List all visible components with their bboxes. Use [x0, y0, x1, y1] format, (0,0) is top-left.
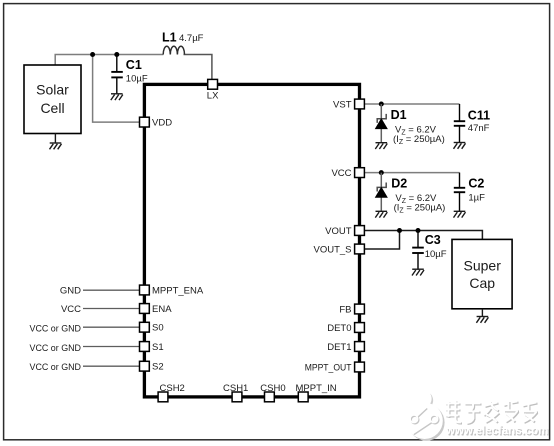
pin LX — [207, 79, 219, 101]
svg-text:D2: D2 — [391, 176, 407, 190]
ground (C1) — [111, 94, 123, 100]
pin DET0 — [327, 323, 364, 335]
svg-text:D1: D1 — [391, 108, 407, 122]
wire VCC or GND to S1 — [83, 346, 140, 348]
wire GND to MPPT_ENA — [83, 289, 140, 291]
svg-text:4.7µF: 4.7µF — [179, 33, 204, 44]
wire solar cell top to rail — [55, 55, 163, 66]
svg-text:S0: S0 — [152, 323, 164, 334]
pin VST — [333, 99, 364, 111]
pin MPPT_ENA — [140, 285, 204, 296]
svg-text:www.elecfans.com: www.elecfans.com — [445, 425, 548, 437]
svg-text:MPPT_ENA: MPPT_ENA — [152, 285, 204, 296]
pin VCC — [331, 168, 364, 180]
pin FB — [339, 304, 364, 316]
svg-text:L1: L1 — [162, 30, 177, 44]
watermark logo — [406, 392, 444, 441]
pin VDD — [140, 117, 173, 128]
wire L1 to LX pin — [184, 55, 212, 81]
super cap box — [452, 239, 512, 308]
wire VOUT to Super Cap — [364, 231, 482, 241]
wire VCC or GND to S0 — [83, 326, 140, 328]
svg-text:GND: GND — [60, 285, 81, 296]
svg-text:C2: C2 — [468, 176, 484, 190]
svg-text:MPPT_IN: MPPT_IN — [296, 383, 337, 394]
capacitor C3 — [412, 231, 424, 270]
svg-text:VCC: VCC — [331, 168, 351, 179]
svg-text:Super: Super — [464, 258, 502, 274]
svg-text:CSH2: CSH2 — [160, 383, 185, 394]
wire VST to C11 — [364, 103, 459, 105]
capacitor C11 — [454, 104, 465, 142]
wire VCC or GND to S2 — [83, 365, 140, 367]
ground (C3) — [412, 269, 424, 275]
solar cell box — [24, 65, 81, 134]
svg-text:VOUT: VOUT — [325, 226, 352, 237]
svg-text:10µF: 10µF — [126, 73, 148, 84]
node A junction dot — [90, 52, 95, 57]
node VCC junction dot — [379, 170, 384, 175]
pin VOUT — [325, 226, 364, 238]
pin MPPT_OUT — [305, 362, 365, 374]
svg-text:Solar: Solar — [36, 82, 69, 98]
svg-text:DET1: DET1 — [327, 342, 351, 353]
svg-text:1µF: 1µF — [468, 192, 485, 203]
svg-text:C1: C1 — [126, 58, 142, 72]
node D junction dot — [416, 228, 421, 233]
inductor L1 — [163, 46, 184, 54]
svg-text:47nF: 47nF — [468, 123, 490, 134]
svg-text:VOUT_S: VOUT_S — [313, 245, 351, 256]
pin VOUT_S — [313, 244, 364, 256]
node C junction dot — [397, 228, 402, 233]
zener diode D2 — [376, 173, 387, 212]
ground (D1) — [375, 143, 387, 149]
svg-text:CSH0: CSH0 — [260, 383, 285, 394]
capacitor C1 — [111, 55, 123, 94]
node B junction dot — [114, 52, 119, 57]
svg-text:S2: S2 — [152, 362, 164, 373]
wire node A to VDD pin — [93, 55, 140, 123]
svg-text:C11: C11 — [468, 108, 490, 122]
svg-text:VDD: VDD — [152, 118, 172, 129]
node VST junction dot — [379, 102, 384, 107]
pin DET1 — [327, 342, 364, 354]
pin S0 — [140, 322, 164, 333]
svg-text:C3: C3 — [425, 233, 441, 247]
svg-text:VCC: VCC — [61, 304, 81, 315]
svg-text:VST: VST — [333, 100, 352, 111]
IC U1 (energy harvester, main body) — [144, 84, 359, 397]
svg-text:MPPT_OUT: MPPT_OUT — [305, 363, 352, 374]
pin CSH1 — [223, 383, 248, 402]
svg-text:VCC or GND: VCC or GND — [30, 323, 82, 334]
ground (super cap) — [476, 309, 488, 323]
wire VOUT_S to node C — [364, 231, 399, 250]
wire VCC to ENA — [83, 308, 140, 310]
ground (D2) — [375, 211, 387, 217]
svg-text:FB: FB — [339, 305, 351, 316]
svg-text:DET0: DET0 — [327, 323, 351, 334]
svg-text:Cap: Cap — [469, 275, 495, 291]
svg-text:CSH1: CSH1 — [223, 383, 248, 394]
svg-text:VCC or GND: VCC or GND — [30, 362, 82, 373]
pin CSH0 — [260, 383, 285, 402]
svg-text:LX: LX — [207, 91, 219, 102]
pin S1 — [140, 342, 164, 353]
watermark text dian-zi-fa-shao-you — [447, 402, 539, 425]
pin S2 — [140, 361, 164, 372]
svg-text:Cell: Cell — [40, 100, 64, 116]
svg-text:ENA: ENA — [152, 304, 172, 315]
svg-text:10µF: 10µF — [425, 249, 447, 260]
ground (C11) — [454, 143, 466, 149]
ground (solar cell) — [50, 134, 62, 150]
wire VCC to C2 — [364, 172, 459, 174]
capacitor C2 — [454, 173, 465, 212]
zener diode D1 — [376, 104, 387, 143]
pin MPPT_IN — [296, 383, 337, 402]
pin ENA — [140, 304, 173, 315]
ground (C2) — [454, 211, 466, 217]
svg-text:S1: S1 — [152, 342, 164, 353]
svg-text:VCC or GND: VCC or GND — [30, 343, 82, 354]
pin CSH2 — [158, 383, 185, 402]
